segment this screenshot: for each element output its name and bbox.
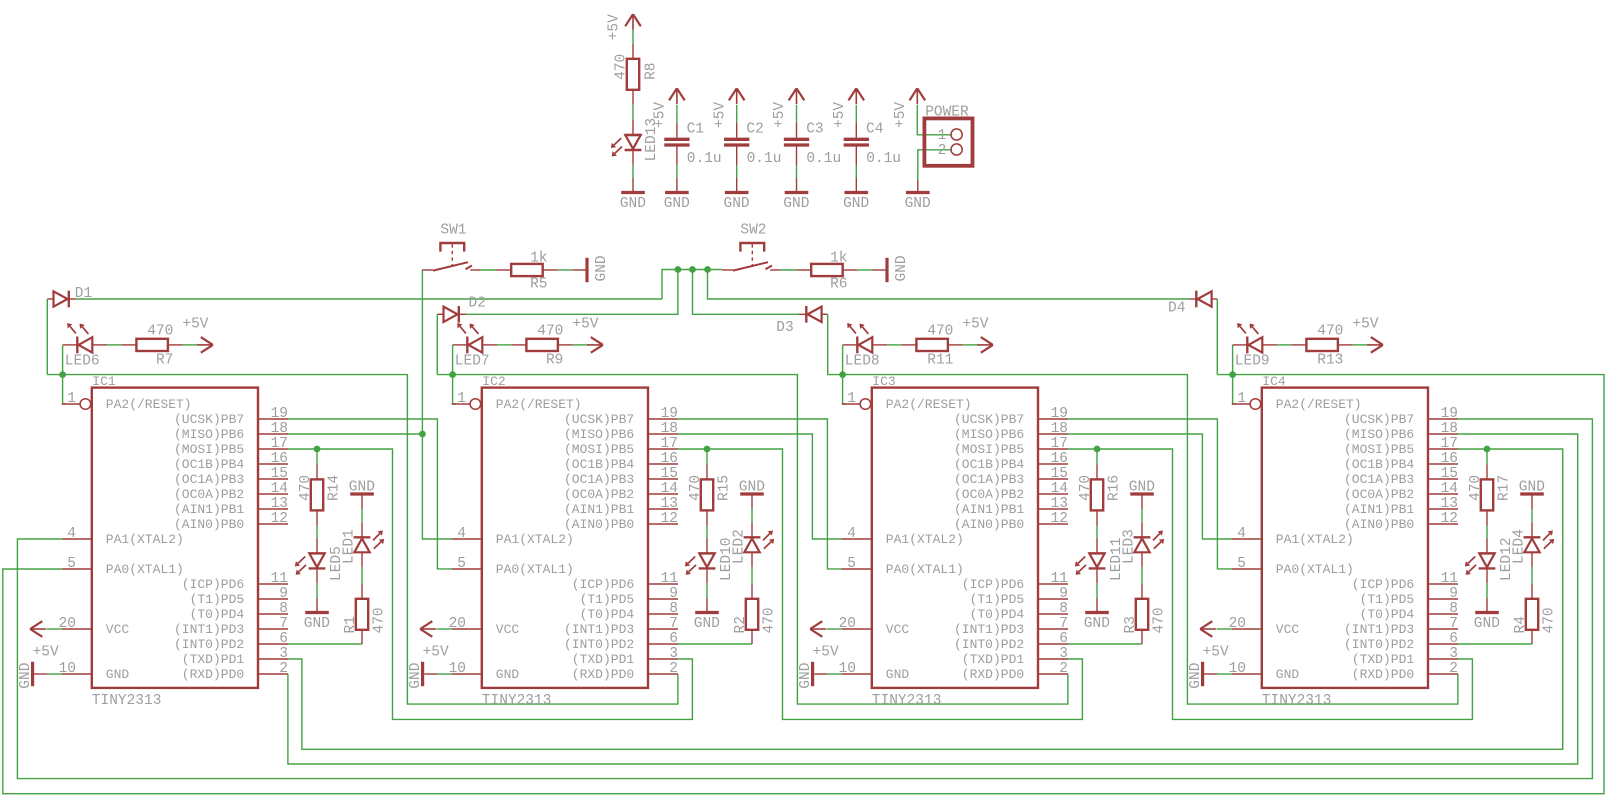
svg-text:16: 16: [1441, 451, 1458, 467]
svg-text:(OC1B)PB4: (OC1B)PB4: [174, 457, 244, 472]
svg-text:+5V: +5V: [33, 645, 59, 661]
svg-text:18: 18: [271, 421, 288, 437]
svg-text:(ICP)PD6: (ICP)PD6: [1352, 577, 1414, 592]
LED LED5: [316, 538, 318, 553]
LED LED8: [843, 344, 858, 346]
LED LED7: [453, 344, 468, 346]
svg-text:19: 19: [661, 406, 678, 422]
resistor R6: [796, 269, 811, 271]
svg-text:17: 17: [1441, 436, 1458, 452]
resistor R4: [1531, 584, 1533, 599]
svg-text:8: 8: [669, 601, 678, 617]
svg-text:15: 15: [661, 466, 678, 482]
LED LED10: [706, 538, 708, 553]
IC2 pin 11 (ICP)PD6: [648, 583, 678, 585]
wire (LED9 to reset node): [1232, 345, 1234, 375]
svg-text:17: 17: [1051, 436, 1068, 452]
svg-text:0.1u: 0.1u: [866, 151, 901, 167]
wire (IC2 pin 17 to IC3 pin 3): [678, 448, 707, 450]
svg-text:(UCSK)PB7: (UCSK)PB7: [174, 412, 244, 427]
svg-text:12: 12: [1441, 511, 1458, 527]
wire: [1096, 583, 1098, 597]
svg-text:470: 470: [1151, 607, 1167, 633]
svg-text:(OC0A)PB2: (OC0A)PB2: [1344, 487, 1414, 502]
IC1 pin 17 (MOSI)PB5: [258, 448, 288, 450]
svg-text:2: 2: [1059, 661, 1068, 677]
svg-text:LED1: LED1: [341, 529, 357, 564]
IC1 pin 8 (T0)PD4: [258, 613, 288, 615]
svg-text:GND: GND: [408, 663, 424, 689]
wire (to D4): [708, 270, 1190, 300]
svg-text:5: 5: [457, 556, 466, 572]
IC3 pin 10 GND: [842, 673, 872, 675]
svg-text:0.1u: 0.1u: [747, 151, 782, 167]
svg-text:7: 7: [1449, 616, 1458, 632]
svg-text:R3: R3: [1123, 616, 1139, 633]
svg-text:(INT0)PD2: (INT0)PD2: [564, 637, 634, 652]
svg-text:LED6: LED6: [65, 354, 100, 370]
wire: [1277, 344, 1291, 346]
svg-text:(OC1A)PB3: (OC1A)PB3: [174, 472, 244, 487]
svg-text:GND: GND: [304, 616, 330, 632]
svg-text:13: 13: [661, 496, 678, 512]
svg-text:+5V: +5V: [182, 317, 208, 333]
IC2 pin 18 (MISO)PB6: [648, 433, 678, 435]
svg-text:GND: GND: [1276, 667, 1300, 682]
svg-text:19: 19: [1441, 406, 1458, 422]
svg-text:C3: C3: [806, 122, 823, 138]
resistor R1: [361, 584, 363, 599]
wire: [1353, 344, 1368, 346]
svg-text:14: 14: [271, 481, 288, 497]
wire: [963, 344, 978, 346]
IC3 pin 9 (T1)PD5: [1038, 598, 1068, 600]
wire: [632, 165, 634, 178]
svg-text:R17: R17: [1496, 475, 1512, 501]
IC4 pin 17 (MOSI)PB5: [1428, 448, 1458, 450]
svg-text:6: 6: [1059, 631, 1068, 647]
svg-text:10: 10: [59, 661, 76, 677]
IC4 pin 14 (OC0A)PB2: [1428, 493, 1458, 495]
svg-text:16: 16: [661, 451, 678, 467]
junction: [675, 266, 682, 273]
wire: [796, 165, 798, 178]
svg-text:VCC: VCC: [496, 622, 520, 637]
switch SW1: [440, 243, 464, 252]
wire: [437, 628, 452, 630]
svg-text:(MISO)PB6: (MISO)PB6: [1344, 427, 1414, 442]
svg-text:4: 4: [1237, 526, 1246, 542]
wire: [751, 567, 753, 584]
IC4 pin 10 GND: [1232, 673, 1262, 675]
IC IC4 TINY2313: [1229, 374, 1458, 709]
IC2 pin 16 (OC1B)PB4: [648, 463, 678, 465]
svg-text:10: 10: [839, 661, 856, 677]
+5V symbol: [977, 344, 993, 346]
IC2 pin 6 (INT0)PD2: [648, 643, 678, 645]
svg-text:470: 470: [927, 324, 953, 340]
svg-text:GND: GND: [739, 479, 765, 495]
ground (pin 10): [1201, 662, 1204, 686]
IC4 pin 7 (INT1)PD3: [1428, 628, 1458, 630]
svg-text:GND: GND: [106, 667, 130, 682]
svg-text:GND: GND: [349, 479, 375, 495]
IC2 pin 12 (AIN0)PB0: [648, 523, 678, 525]
wire (IC3 pin 17 to IC4 pin 3): [1068, 448, 1097, 450]
svg-text:(INT0)PD2: (INT0)PD2: [174, 637, 244, 652]
svg-text:11: 11: [1051, 571, 1068, 587]
svg-text:12: 12: [661, 511, 678, 527]
svg-text:470: 470: [1317, 324, 1343, 340]
IC2 pin 20 VCC: [452, 628, 482, 630]
IC2 pin 2 (RXD)PD0: [648, 673, 678, 675]
ground (POWER): [917, 180, 919, 193]
IC4 pin 6 (INT0)PD2: [1428, 643, 1458, 645]
LED LED2: [751, 522, 753, 537]
junction: [704, 446, 711, 453]
ground (LED5): [316, 598, 318, 613]
IC2 pin 14 (OC0A)PB2: [648, 493, 678, 495]
svg-text:(UCSK)PB7: (UCSK)PB7: [1344, 412, 1414, 427]
wire: [1096, 449, 1098, 464]
svg-text:(RXD)PD0: (RXD)PD0: [572, 667, 634, 682]
wire: [1217, 673, 1232, 675]
wire: [855, 105, 857, 123]
svg-text:(T0)PD4: (T0)PD4: [970, 607, 1025, 622]
svg-text:13: 13: [1051, 496, 1068, 512]
ground (pin 10): [421, 662, 424, 686]
svg-text:GND: GND: [905, 196, 931, 212]
IC1 pin 7 (INT1)PD3: [258, 628, 288, 630]
svg-text:GND: GND: [1519, 479, 1545, 495]
IC1 pin 12 (AIN0)PB0: [258, 523, 288, 525]
+5V symbol (VCC): [1200, 628, 1216, 630]
ground (LED2): [740, 492, 764, 495]
IC2 pin 1 PA2(/RESET): [452, 403, 470, 405]
IC4 pin 18 (MISO)PB6: [1428, 433, 1458, 435]
svg-text:R13: R13: [1317, 353, 1343, 369]
svg-text:+5V: +5V: [712, 102, 728, 128]
junction: [689, 266, 696, 273]
svg-text:(OC0A)PB2: (OC0A)PB2: [954, 487, 1024, 502]
svg-text:PA0(XTAL1): PA0(XTAL1): [886, 562, 964, 577]
wire (R1 to pin 6): [288, 643, 362, 645]
ground (R6): [872, 269, 887, 271]
wire (reset net IC1): [47, 375, 678, 704]
wire: [1531, 509, 1533, 522]
IC3 pin 3 (TXD)PD1: [1038, 658, 1068, 660]
svg-text:470: 470: [1541, 607, 1557, 633]
junction: [314, 446, 321, 453]
wire (reset net IC4 wrap to IC1 PA0): [3, 375, 1604, 794]
diode D2: [437, 313, 443, 315]
wire: [736, 165, 738, 178]
svg-text:1: 1: [1237, 391, 1246, 407]
svg-text:R16: R16: [1106, 475, 1122, 501]
svg-text:TINY2313: TINY2313: [1262, 693, 1332, 709]
wire (LED6 to reset node): [62, 345, 64, 375]
svg-text:470: 470: [537, 324, 563, 340]
resistor R15: [706, 464, 708, 479]
IC3 pin 12 (AIN0)PB0: [1038, 523, 1068, 525]
wire (IC3 pin 19 to IC4 pin 5): [1068, 419, 1232, 569]
svg-text:0.1u: 0.1u: [806, 151, 841, 167]
IC3 pin 13 (AIN1)PB1: [1038, 508, 1068, 510]
svg-text:R15: R15: [716, 475, 732, 501]
svg-text:18: 18: [1051, 421, 1068, 437]
wire: [1486, 449, 1488, 464]
wire: [107, 344, 121, 346]
IC1 pin 1 PA2(/RESET): [62, 403, 80, 405]
wire (to D3): [693, 270, 800, 315]
svg-text:8: 8: [1059, 601, 1068, 617]
svg-text:470: 470: [688, 475, 704, 501]
IC2 pin 19 (UCSK)PB7: [648, 418, 678, 420]
IC3 pin 1 PA2(/RESET): [842, 403, 860, 405]
IC2 pin 3 (TXD)PD1: [648, 658, 678, 660]
IC4 pin 3 (TXD)PD1: [1428, 658, 1458, 660]
svg-text:(T1)PD5: (T1)PD5: [190, 592, 245, 607]
svg-text:GND: GND: [594, 255, 610, 281]
svg-text:D2: D2: [469, 296, 486, 312]
IC4 pin 1 PA2(/RESET): [1232, 403, 1250, 405]
IC1 pin 14 (OC0A)PB2: [258, 493, 288, 495]
svg-text:6: 6: [1449, 631, 1458, 647]
svg-text:(AIN1)PB1: (AIN1)PB1: [1344, 502, 1414, 517]
svg-text:7: 7: [279, 616, 288, 632]
wire: [316, 449, 318, 464]
junction: [1229, 371, 1236, 378]
svg-text:(UCSK)PB7: (UCSK)PB7: [954, 412, 1024, 427]
svg-text:7: 7: [669, 616, 678, 632]
svg-text:20: 20: [449, 616, 466, 632]
svg-text:8: 8: [1449, 601, 1458, 617]
IC3 pin 4 PA1(XTAL2): [842, 538, 872, 540]
svg-text:GND: GND: [894, 255, 910, 281]
svg-text:12: 12: [1051, 511, 1068, 527]
svg-text:(INT1)PD3: (INT1)PD3: [1344, 622, 1414, 637]
IC IC3 TINY2313: [839, 374, 1068, 709]
svg-text:(AIN0)PB0: (AIN0)PB0: [564, 517, 634, 532]
wire: [1141, 567, 1143, 584]
IC4 pin 4 PA1(XTAL2): [1232, 538, 1262, 540]
svg-text:4: 4: [457, 526, 466, 542]
wire: [855, 165, 857, 178]
IC4 pin 20 VCC: [1232, 628, 1262, 630]
svg-text:LED3: LED3: [1121, 529, 1137, 564]
IC4 pin 12 (AIN0)PB0: [1428, 523, 1458, 525]
IC2 pin 8 (T0)PD4: [648, 613, 678, 615]
svg-text:6: 6: [279, 631, 288, 647]
svg-text:1: 1: [67, 391, 76, 407]
svg-text:16: 16: [1051, 451, 1068, 467]
switch SW2: [740, 243, 764, 252]
IC2 pin 4 PA1(XTAL2): [452, 538, 482, 540]
svg-text:3: 3: [279, 646, 288, 662]
svg-text:12: 12: [271, 511, 288, 527]
svg-text:20: 20: [839, 616, 856, 632]
wire (to D2): [466, 270, 678, 315]
IC1 pin 20 VCC: [62, 628, 92, 630]
wire (IC2 pin 19 to IC3 pin 5): [678, 419, 842, 569]
svg-text:13: 13: [271, 496, 288, 512]
wire (reset to pin 1): [453, 375, 456, 404]
svg-text:SW2: SW2: [740, 222, 766, 238]
IC3 pin 16 (OC1B)PB4: [1038, 463, 1068, 465]
svg-text:3: 3: [1449, 646, 1458, 662]
IC3 pin 8 (T0)PD4: [1038, 613, 1068, 615]
svg-text:18: 18: [661, 421, 678, 437]
IC4 pin 2 (RXD)PD0: [1428, 673, 1458, 675]
svg-text:SW1: SW1: [440, 222, 466, 238]
wire (switch pole net): [662, 270, 722, 300]
svg-text:5: 5: [1237, 556, 1246, 572]
capacitor C4: [855, 123, 857, 138]
junction: [1094, 446, 1101, 453]
svg-text:TINY2313: TINY2313: [92, 693, 162, 709]
+5V symbol (C4): [855, 88, 857, 104]
svg-text:TINY2313: TINY2313: [482, 693, 552, 709]
svg-text:IC4: IC4: [1262, 374, 1286, 389]
wire (R3 to pin 6): [1068, 643, 1142, 645]
svg-text:+5V: +5V: [772, 102, 788, 128]
IC IC1 TINY2313: [59, 374, 288, 709]
IC3 pin 2 (RXD)PD0: [1038, 673, 1068, 675]
svg-text:(MOSI)PB5: (MOSI)PB5: [1344, 442, 1414, 457]
svg-text:(OC1B)PB4: (OC1B)PB4: [1344, 457, 1414, 472]
svg-text:10: 10: [1229, 661, 1246, 677]
IC2 pin 7 (INT1)PD3: [648, 628, 678, 630]
IC2 pin 15 (OC1A)PB3: [648, 478, 678, 480]
IC4 pin 15 (OC1A)PB3: [1428, 478, 1458, 480]
svg-text:11: 11: [271, 571, 288, 587]
IC1 pin 3 (TXD)PD1: [258, 658, 288, 660]
wire (reset net IC2): [437, 375, 1068, 704]
IC4 pin 8 (T0)PD4: [1428, 613, 1458, 615]
svg-text:GND: GND: [620, 196, 646, 212]
wire (reset to pin 1): [1233, 375, 1236, 404]
wire (D3 anode to IC3 reset): [827, 314, 829, 374]
IC1 pin 6 (INT0)PD2: [258, 643, 288, 645]
svg-text:D1: D1: [75, 286, 92, 302]
IC3 pin 15 (OC1A)PB3: [1038, 478, 1068, 480]
LED LED1: [361, 522, 363, 537]
resistor R17: [1486, 464, 1488, 479]
wire (IC2 pin 18 to IC3 pin 4): [678, 434, 842, 539]
ground (LED1): [350, 492, 374, 495]
svg-text:(T0)PD4: (T0)PD4: [580, 607, 635, 622]
svg-text:(T1)PD5: (T1)PD5: [970, 592, 1025, 607]
wire: [1531, 567, 1533, 584]
wire: [497, 344, 511, 346]
ground (LED4): [1520, 492, 1544, 495]
svg-text:GND: GND: [843, 196, 869, 212]
svg-text:LED2: LED2: [731, 529, 747, 564]
IC4 pin 9 (T1)PD5: [1428, 598, 1458, 600]
wire: [887, 344, 901, 346]
svg-text:+5V: +5V: [893, 102, 909, 128]
LED LED6: [63, 344, 78, 346]
svg-text:R7: R7: [156, 353, 173, 369]
svg-text:19: 19: [1051, 406, 1068, 422]
svg-text:(RXD)PD0: (RXD)PD0: [1352, 667, 1414, 682]
+5V symbol: [1367, 344, 1383, 346]
wire (D4 anode to IC4 reset): [1216, 299, 1218, 375]
wire (reset to pin 1): [843, 375, 846, 404]
svg-text:9: 9: [1449, 586, 1458, 602]
svg-text:(MISO)PB6: (MISO)PB6: [954, 427, 1024, 442]
svg-text:1k: 1k: [530, 251, 547, 267]
wire (reset to pin 1): [63, 375, 66, 404]
svg-text:8: 8: [279, 601, 288, 617]
svg-text:GND: GND: [496, 667, 520, 682]
svg-text:10: 10: [449, 661, 466, 677]
svg-text:(MOSI)PB5: (MOSI)PB5: [564, 442, 634, 457]
resistor R7: [121, 344, 136, 346]
ground (pin 10): [811, 662, 814, 686]
svg-text:14: 14: [1051, 481, 1068, 497]
wire: [361, 509, 363, 522]
ground (R5): [572, 269, 587, 271]
wire (IC1 pin 17 to IC2 pin 3): [288, 448, 317, 450]
wire (R2 to pin 6): [678, 643, 752, 645]
wire: [1217, 628, 1232, 630]
+5V symbol (R8 chain): [632, 14, 634, 30]
svg-text:+5V: +5V: [813, 645, 839, 661]
wire: [183, 344, 198, 346]
IC3 pin 11 (ICP)PD6: [1038, 583, 1068, 585]
svg-text:+5V: +5V: [572, 317, 598, 333]
ground (C3): [796, 178, 798, 193]
resistor R11: [901, 344, 916, 346]
svg-text:GND: GND: [1129, 479, 1155, 495]
svg-text:(RXD)PD0: (RXD)PD0: [182, 667, 244, 682]
ground (C4): [855, 178, 857, 193]
wire: [1141, 509, 1143, 522]
capacitor C3: [796, 123, 798, 138]
svg-text:GND: GND: [783, 196, 809, 212]
svg-text:16: 16: [271, 451, 288, 467]
IC2 pin 5 PA0(XTAL1): [452, 568, 482, 570]
wire (D2 anode to IC2 reset): [436, 314, 438, 374]
svg-text:VCC: VCC: [1276, 622, 1300, 637]
svg-text:15: 15: [1441, 466, 1458, 482]
IC1 pin 2 (RXD)PD0: [258, 673, 288, 675]
ground (pin 10): [31, 662, 34, 686]
svg-text:(MISO)PB6: (MISO)PB6: [174, 427, 244, 442]
+5V symbol: [197, 344, 213, 346]
diode D3: [799, 313, 806, 315]
svg-text:R14: R14: [326, 475, 342, 501]
svg-text:3: 3: [669, 646, 678, 662]
wire (IC4 pin 18 wrap to IC1 pin 2): [288, 434, 1578, 764]
svg-text:13: 13: [1441, 496, 1458, 512]
resistor R2: [751, 584, 753, 599]
svg-text:4: 4: [67, 526, 76, 542]
svg-text:R9: R9: [546, 353, 563, 369]
svg-text:14: 14: [1441, 481, 1458, 497]
wire (D1 anode to IC1 reset): [46, 299, 48, 375]
wire (IC1 pin 18 to IC2 pin 4): [288, 434, 452, 539]
IC1 pin 4 PA1(XTAL2): [62, 538, 92, 540]
+5V symbol (POWER): [916, 88, 918, 104]
svg-text:2: 2: [279, 661, 288, 677]
+5V symbol (VCC): [30, 628, 46, 630]
svg-text:17: 17: [271, 436, 288, 452]
wire: [858, 269, 873, 271]
svg-text:1: 1: [457, 391, 466, 407]
wire: [47, 673, 62, 675]
